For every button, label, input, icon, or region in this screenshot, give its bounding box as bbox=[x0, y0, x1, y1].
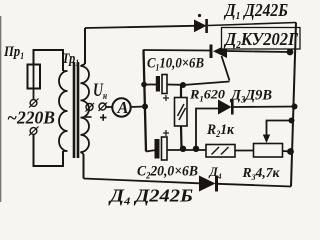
svg-text:R34,7к: R34,7к bbox=[242, 166, 281, 182]
terminal bottom of ~220V bbox=[29, 127, 39, 136]
wire C row bbox=[146, 150, 156, 152]
wire bottom rail right of D4 bbox=[218, 184, 291, 187]
terminal minus bbox=[85, 103, 94, 117]
transformer T1 secondary winding bbox=[81, 64, 90, 154]
wire D3 branch bbox=[196, 109, 218, 150]
wire secondary top to top bus corner bbox=[84, 28, 86, 64]
svg-text:~220В: ~220В bbox=[7, 108, 55, 128]
wire plus terminal to ammeter bbox=[106, 106, 112, 108]
junction thyristor rail / right bus bbox=[287, 49, 294, 56]
svg-text:А: А bbox=[117, 98, 129, 117]
wire left bus bbox=[144, 50, 147, 152]
wire top bus left of D1 bbox=[85, 26, 195, 28]
wire top bus right of D1 bbox=[208, 23, 296, 26]
diode D3 bbox=[218, 100, 234, 115]
wire bottom rail left of D4 bbox=[84, 179, 200, 184]
resistor R3 bbox=[254, 144, 283, 158]
scan edge artifact bbox=[0, 16, 2, 202]
junction left bus / C1 bbox=[141, 82, 147, 88]
ink dot bbox=[198, 14, 201, 17]
resistor R2 bbox=[206, 145, 235, 158]
wire junction to thyristor gate bbox=[183, 82, 230, 86]
junction R1 bottom bbox=[180, 146, 186, 152]
svg-text:Д3Д9В: Д3Д9В bbox=[229, 88, 272, 105]
wire right bus bbox=[291, 23, 296, 187]
svg-text:Д1 Д242Б: Д1 Д242Б bbox=[223, 0, 288, 22]
wiper of R3 bbox=[263, 121, 292, 144]
junction D3 branch bottom bbox=[193, 146, 199, 152]
resistor R1 bbox=[175, 85, 188, 149]
label box D2 KU202G bbox=[222, 28, 301, 52]
junction wiper / right bus bbox=[289, 118, 295, 124]
diode D4 bbox=[199, 176, 218, 192]
wire thyristor rail bbox=[144, 49, 211, 52]
junction R3 / right bus bbox=[287, 148, 294, 155]
junction left bus / ammeter bbox=[142, 104, 148, 110]
svg-text:Д4 Д242Б: Д4 Д242Б bbox=[108, 186, 193, 208]
wire secondary bottom to bottom rail bbox=[83, 154, 85, 179]
wire primary bottom loop bbox=[34, 135, 64, 167]
transformer T1 primary winding bbox=[59, 71, 68, 151]
thyristor D2 bbox=[210, 45, 230, 81]
ammeter A bbox=[112, 98, 130, 117]
wire D3 to right bus bbox=[234, 106, 296, 109]
svg-text:Д2КУ202Г: Д2КУ202Г bbox=[223, 29, 298, 51]
junction D3 / right bus bbox=[292, 104, 298, 110]
fuse Pr1 bbox=[28, 65, 41, 100]
svg-text:R21к: R21к bbox=[206, 122, 234, 139]
capacitor C2 bbox=[155, 130, 170, 160]
wire ammeter to left bus bbox=[131, 106, 145, 109]
diode D1 bbox=[194, 19, 208, 33]
terminal top of ~220V bbox=[29, 99, 39, 108]
junction C1 / R1 bbox=[180, 82, 186, 88]
wire fuse top to transformer bbox=[34, 50, 64, 71]
capacitor C1 bbox=[144, 75, 183, 102]
terminal plus bbox=[99, 103, 108, 121]
transformer core bbox=[74, 62, 78, 158]
